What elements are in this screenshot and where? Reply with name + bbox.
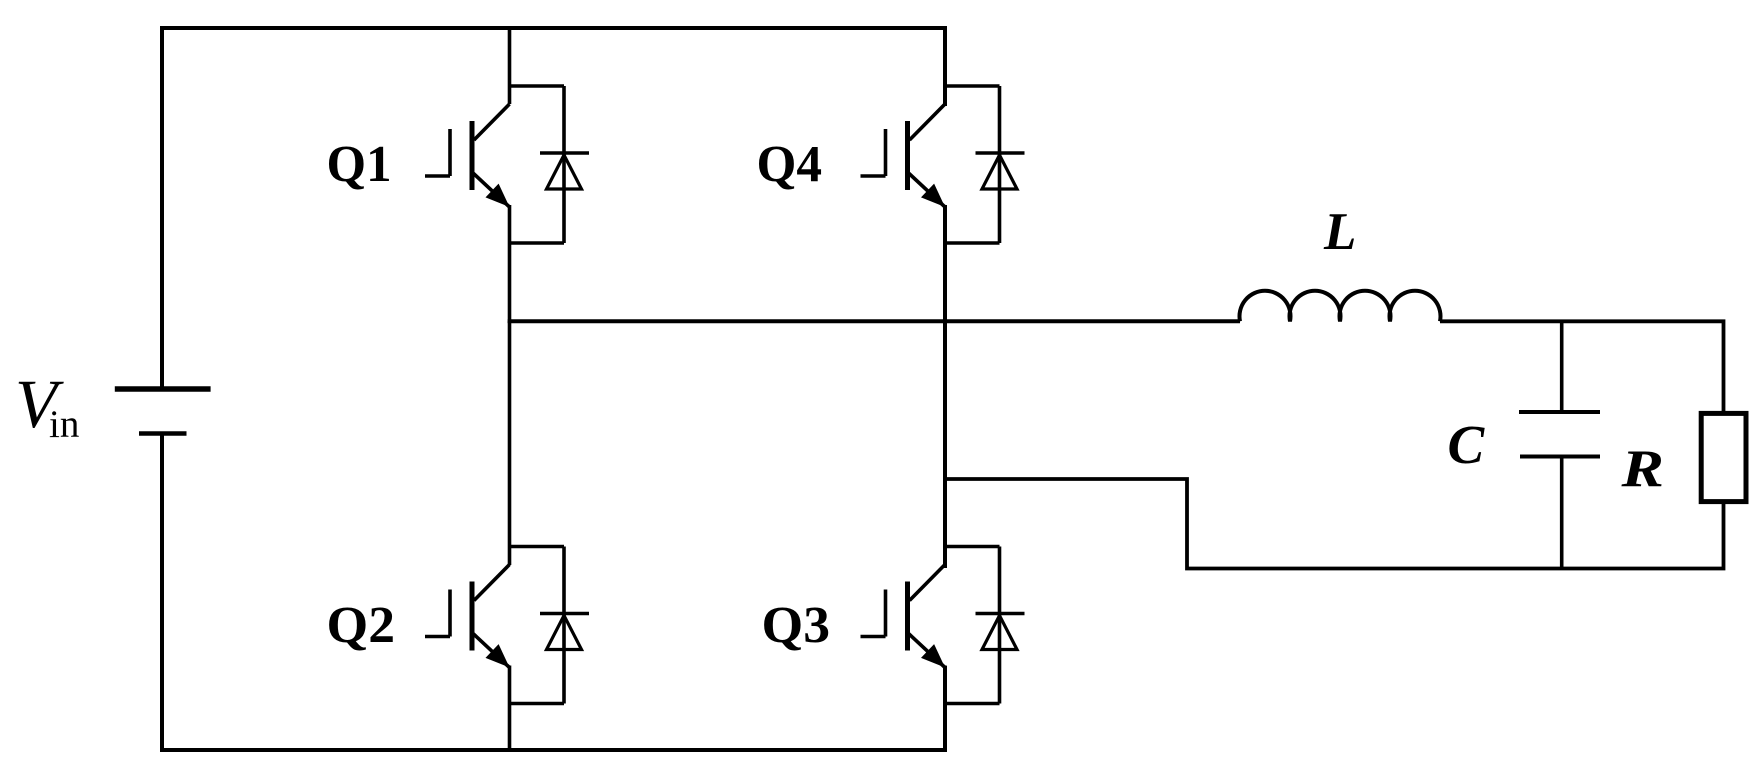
wire right leg output (node B) to load bottom (945, 479, 1724, 569)
wire mid rail (left leg output node A) (508, 319, 1240, 323)
svg-text:C: C (1448, 414, 1486, 475)
IGBT body bar (470, 121, 475, 190)
svg-text:in: in (49, 403, 79, 446)
wire Q1 emitter to mid node (508, 205, 512, 323)
battery Vin long plate (+) (115, 386, 211, 392)
IGBT emitter diagonal (473, 173, 510, 207)
transistor Q1 (IGBT with antiparallel diode) (425, 86, 589, 243)
svg-text:R: R (1620, 440, 1664, 498)
capacitor C branch bottom wire (1560, 457, 1564, 569)
battery Vin short plate (-) (139, 431, 187, 436)
wire top rail with left drop to battery and right drop to Q4 collector (162, 28, 945, 389)
wire diode branch vertical (562, 86, 566, 243)
wire Q2 emitter to bottom rail (508, 666, 512, 751)
transistor Q2 (IGBT with antiparallel diode) (425, 547, 589, 704)
wire inductor to load top (1440, 321, 1724, 413)
transistor Q4 (IGBT with antiparallel diode) (861, 86, 1025, 243)
wire Q2 collector vertical (508, 321, 512, 565)
transistor Q3 (IGBT with antiparallel diode) (861, 547, 1025, 704)
IGBT gate bar (448, 129, 452, 176)
svg-text:Q4: Q4 (757, 136, 823, 193)
svg-text:L: L (1323, 203, 1356, 261)
svg-text:Q1: Q1 (327, 136, 392, 193)
resistor R body (1701, 413, 1746, 501)
capacitor C branch top wire (1560, 321, 1564, 412)
svg-text:Q3: Q3 (762, 597, 831, 654)
wire emitter stub to diode (510, 241, 565, 245)
svg-text:Q2: Q2 (327, 597, 396, 654)
wire Q1 collector vertical (508, 28, 512, 104)
wire Q3 emitter to bottom rail (943, 666, 947, 751)
wire collector stub to diode (510, 84, 565, 88)
IGBT gate lead (425, 174, 450, 178)
IGBT emitter arrow (486, 184, 510, 207)
wire bottom rail with left rise to battery and right rise to Q3 emitter (162, 434, 945, 751)
diode triangle (547, 155, 582, 189)
capacitor C bottom plate (1520, 455, 1600, 459)
IGBT collector diagonal (474, 104, 510, 140)
diode cathode bar (540, 151, 589, 155)
wire Q4 emitter / Q3 collector vertical (943, 205, 947, 568)
capacitor C top plate (1519, 410, 1600, 414)
inductor L coils (1240, 291, 1441, 322)
